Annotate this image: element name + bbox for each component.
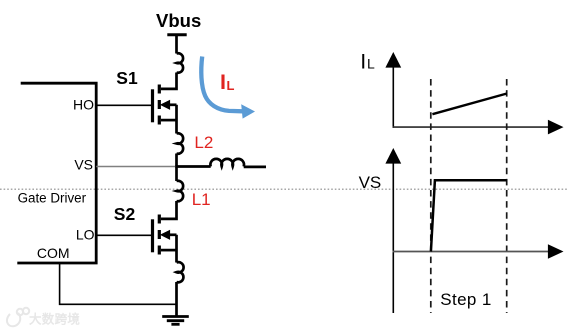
svg-text:COM: COM: [37, 245, 70, 261]
gate driver U1 outline: [17, 83, 96, 263]
dashed time marker t1: [430, 79, 432, 313]
wire VS pin (gray): [96, 166, 176, 168]
VS plot vertical axis: [385, 148, 401, 313]
wire output: [244, 166, 266, 169]
svg-text:Vbus: Vbus: [156, 10, 201, 31]
inductor (Vbus parasitic choke): [177, 53, 184, 73]
watermark logo: [7, 308, 29, 326]
svg-text:Step 1: Step 1: [440, 290, 492, 309]
svg-text:VS: VS: [74, 157, 93, 173]
wire L1 to S2 drain: [161, 201, 177, 219]
wire VS node to output inductor: [175, 165, 211, 168]
IL ramp trace: [432, 94, 507, 115]
wire choke to S1 drain: [161, 73, 177, 89]
svg-text:I: I: [220, 70, 226, 94]
transistor S2: [153, 215, 177, 263]
inductor L1: [177, 181, 184, 201]
current arrow IL (blue): [201, 57, 255, 119]
svg-text:L: L: [367, 55, 375, 71]
svg-text:VS: VS: [359, 173, 382, 192]
svg-text:Gate Driver: Gate Driver: [18, 191, 87, 206]
transistor S1: [153, 85, 177, 134]
IL plot vertical axis: [385, 52, 401, 128]
VS step trace: [431, 180, 507, 251]
VS plot horizontal axis: [393, 244, 564, 259]
wire L2 to VS node and L1: [175, 154, 178, 182]
svg-text:S2: S2: [114, 204, 136, 224]
dashed time marker t2: [506, 79, 508, 313]
svg-text:S1: S1: [116, 68, 138, 88]
label IL (plot): [360, 49, 375, 73]
svg-text:I: I: [360, 49, 366, 73]
svg-text:LO: LO: [76, 227, 95, 243]
wire to ground: [175, 282, 178, 317]
label IL (red): [220, 70, 235, 94]
Vbus terminal: [167, 33, 186, 36]
svg-text:HO: HO: [73, 96, 94, 112]
svg-text:L2: L2: [194, 133, 213, 152]
svg-text:L: L: [227, 78, 235, 93]
inductor L2: [177, 133, 184, 153]
inductor (output, horizontal): [210, 159, 244, 167]
wire COM to ground net: [60, 263, 177, 304]
wire HO to S1 gate: [96, 104, 152, 106]
wire Vbus to choke: [175, 35, 178, 54]
ground: [162, 317, 189, 325]
wire LO to S2 gate: [96, 234, 152, 236]
svg-text:L1: L1: [192, 190, 211, 209]
inductor (S2 source parasitic): [177, 262, 184, 282]
svg-text:大数跨境: 大数跨境: [29, 312, 80, 327]
node VS level dotted line: [0, 188, 568, 190]
IL plot horizontal axis: [393, 120, 564, 135]
